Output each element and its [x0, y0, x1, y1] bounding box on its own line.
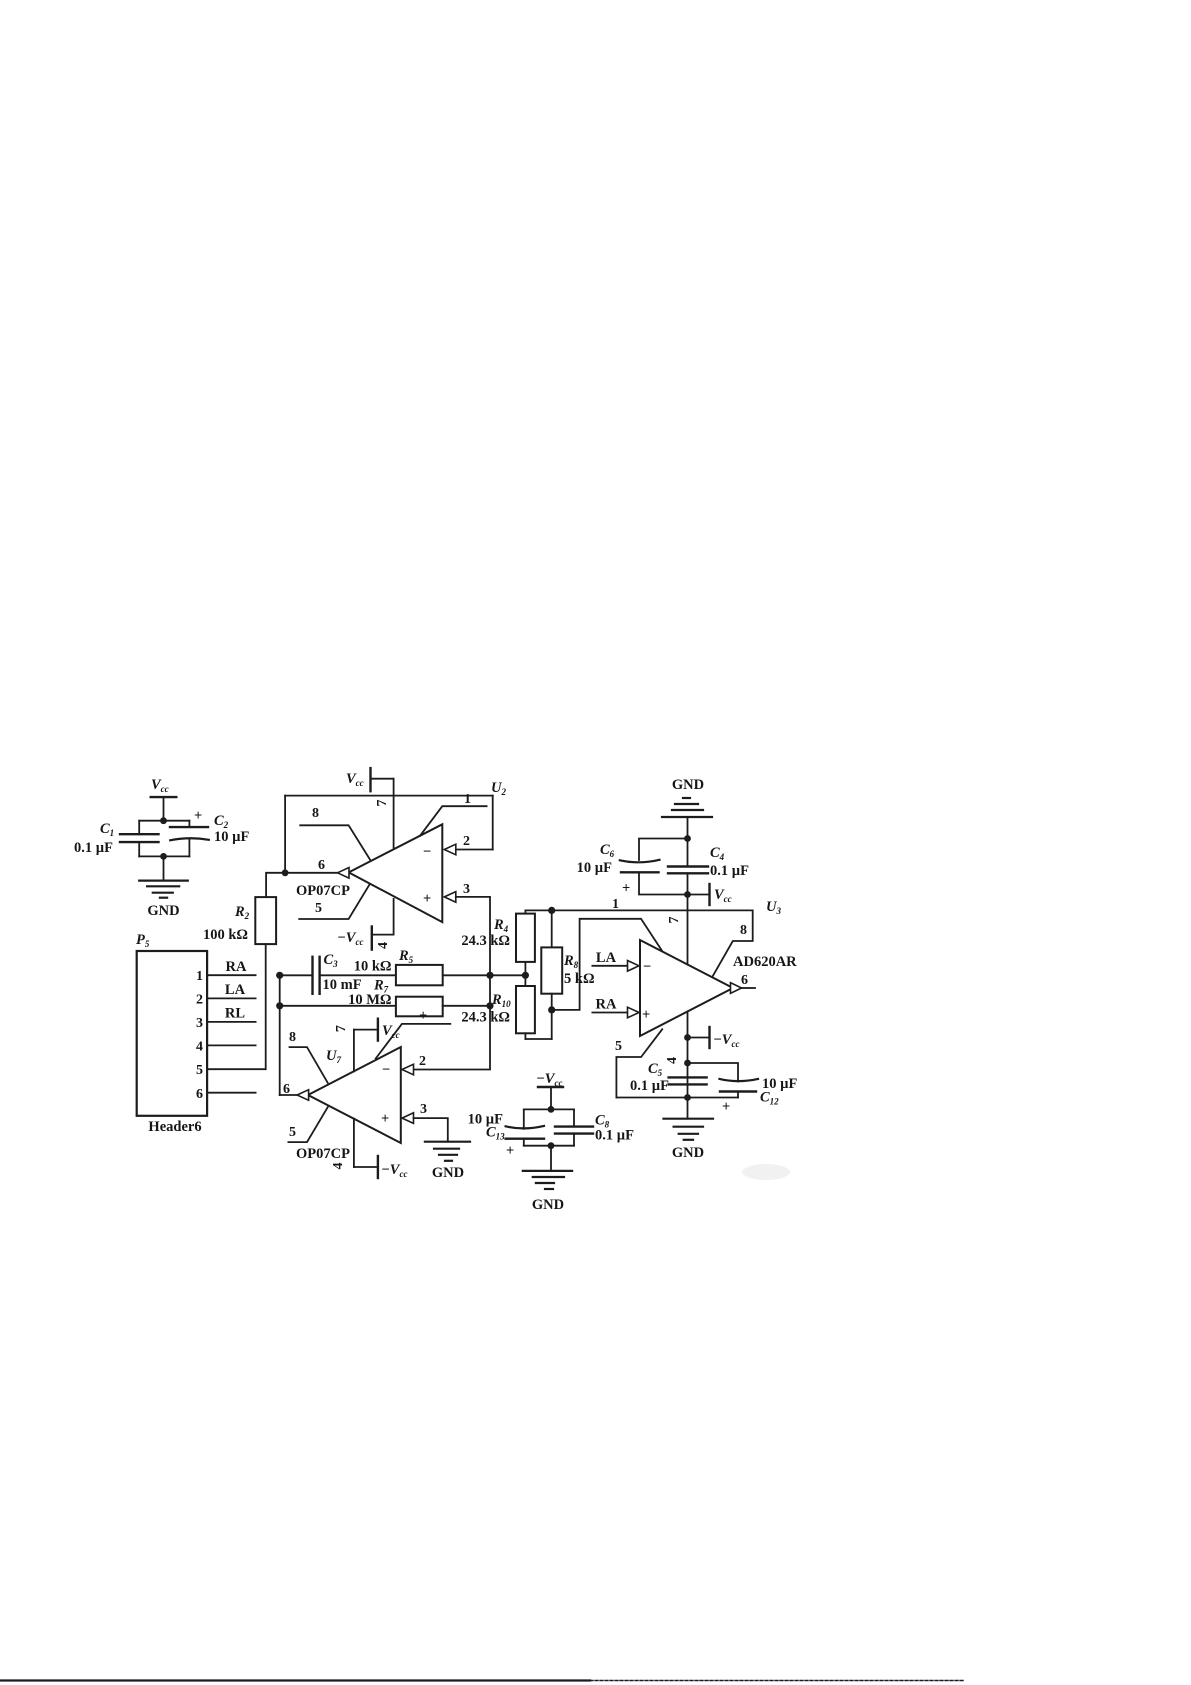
- power flag Vcc right of U3 supply: [688, 884, 732, 905]
- resistor R4 24.3k: [461, 910, 535, 975]
- wire gain network top rail to AD620 pin8: [525, 897, 752, 977]
- svg-text:10 mF: 10 mF: [323, 977, 362, 993]
- power flag -Vcc below U2: [337, 899, 394, 950]
- svg-text:24.3 kΩ: 24.3 kΩ: [461, 933, 510, 949]
- svg-text:0.1 µF: 0.1 µF: [630, 1078, 669, 1094]
- svg-text:100 kΩ: 100 kΩ: [203, 927, 248, 943]
- ground GND top-left: [139, 856, 188, 919]
- pin 6 output arrow of U3: [731, 973, 756, 993]
- ground GND above U3 (inverted): [662, 777, 712, 839]
- wire node to C3: [280, 974, 313, 976]
- pin 3 of P5 (RL): [196, 1006, 256, 1032]
- node junction at Vcc rail: [160, 817, 167, 824]
- pin 3 input arrow of U2: [444, 882, 470, 902]
- resistor R5 10k: [354, 948, 443, 985]
- wire top of C1/C2 pair: [139, 820, 189, 822]
- wire supply vertical from U3 pin4: [687, 1012, 689, 1098]
- wire U7 output to input column: [280, 1094, 297, 1096]
- pin 1 stub of U7 (open): [376, 1024, 451, 1059]
- svg-text:5: 5: [196, 1063, 203, 1078]
- svg-text:+: +: [423, 891, 431, 907]
- svg-text:10 µF: 10 µF: [577, 860, 612, 876]
- svg-text:4: 4: [331, 1163, 346, 1170]
- svg-text:8: 8: [740, 923, 747, 938]
- svg-text:4: 4: [376, 942, 391, 949]
- pin 2 input arrow of U2: [444, 834, 470, 855]
- svg-text:GND: GND: [432, 1165, 464, 1181]
- wire R5 to mid node: [443, 974, 526, 976]
- bottom page rule solid: [0, 1679, 590, 1681]
- wire bottom U of gain network: [525, 1038, 551, 1040]
- svg-text:7: 7: [334, 1025, 349, 1032]
- wire supply vertical into U3 pin7: [687, 895, 689, 965]
- wire U2 feedback top rail: [285, 796, 493, 873]
- svg-text:7: 7: [375, 800, 390, 807]
- node junction bottom cap pair: [548, 1106, 555, 1113]
- svg-text:8: 8: [312, 806, 319, 821]
- node junction top cap pair: [684, 835, 691, 842]
- resistor R2 100k: [203, 897, 276, 944]
- designator U7: [326, 1048, 341, 1065]
- ground GND bottom middle: [523, 1146, 572, 1213]
- pin 5 of P5: [196, 1063, 203, 1078]
- capacitor C6 10uF polarized: [577, 839, 688, 897]
- power flag -Vcc right of U3: [688, 1027, 740, 1049]
- node junction R7 tap: [276, 1002, 283, 1009]
- node junction -Vcc tap U3: [684, 1034, 691, 1041]
- node junction Vcc tap U3: [684, 891, 691, 898]
- svg-text:24.3 kΩ: 24.3 kΩ: [461, 1010, 510, 1026]
- node junction R4/R10: [522, 972, 529, 979]
- svg-text:+: +: [622, 881, 630, 897]
- capacitor C8 0.1uF: [555, 1109, 634, 1145]
- svg-text:Header6: Header6: [148, 1119, 201, 1135]
- wire pin7 supply into U2: [393, 779, 395, 848]
- node junction RA/C3: [276, 972, 283, 979]
- wire C3 to R5: [320, 974, 396, 976]
- pin 1 of P5 (RA): [196, 959, 256, 984]
- svg-text:3: 3: [420, 1102, 427, 1117]
- pin number 7 of U2 (rotated): [375, 800, 390, 807]
- pin 5 stub of U3 to reference rail: [615, 1029, 662, 1097]
- pin number 7 of U7 (rotated): [334, 1025, 349, 1032]
- svg-text:7: 7: [667, 917, 682, 924]
- svg-text:6: 6: [318, 858, 325, 873]
- capacitor C12 10uF polarized: [688, 1063, 798, 1115]
- svg-text:+: +: [642, 1007, 650, 1023]
- connector P5 Header6: [136, 932, 207, 1135]
- svg-text:LA: LA: [225, 982, 246, 998]
- wire top of C13/C8 pair: [524, 1108, 574, 1110]
- capacitor C4 0.1uF: [668, 839, 749, 895]
- wire R2 bottom to header pin5: [207, 944, 266, 1069]
- wire U7 pin3 to ground: [414, 1118, 448, 1142]
- svg-text:+: +: [722, 1099, 730, 1115]
- svg-text:10 kΩ: 10 kΩ: [354, 959, 392, 975]
- wire bottom of C1/C2 pair: [139, 855, 189, 857]
- svg-text:OP07CP: OP07CP: [296, 1146, 350, 1162]
- bottom page rule dashed: [590, 1680, 964, 1682]
- ground GND at U7 pin3: [425, 1142, 470, 1181]
- svg-text:6: 6: [196, 1087, 203, 1102]
- svg-text:GND: GND: [672, 777, 704, 793]
- power flag Vcc above U7: [354, 1019, 400, 1072]
- wire gain bottom to AD620 pin1: [552, 919, 662, 1010]
- pin 3 input arrow of U7: [402, 1102, 427, 1123]
- svg-text:OP07CP: OP07CP: [296, 883, 350, 899]
- svg-text:5: 5: [289, 1125, 296, 1140]
- ground GND below U3: [664, 1098, 714, 1162]
- node junction above bottom GND: [548, 1142, 555, 1149]
- net label RA into U3: [592, 997, 639, 1018]
- pin number 4 of U7 (rotated): [331, 1163, 346, 1170]
- resistor R8 5k gain: [541, 910, 594, 1039]
- wire bottom of C13/C8 pair: [524, 1145, 574, 1147]
- capacitor C5 0.1uF below U3: [630, 1061, 707, 1094]
- svg-text:4: 4: [196, 1040, 203, 1055]
- designator U3: [766, 899, 781, 916]
- svg-text:LA: LA: [596, 950, 617, 966]
- svg-text:GND: GND: [532, 1197, 564, 1213]
- svg-text:GND: GND: [147, 903, 179, 919]
- designator U2: [491, 780, 506, 797]
- svg-text:AD620AR: AD620AR: [733, 954, 797, 970]
- node junction ground rail: [684, 1094, 691, 1101]
- wire reference/ground rail below U3: [616, 1097, 738, 1099]
- svg-text:0.1 µF: 0.1 µF: [710, 863, 749, 879]
- op-amp U2 OP07CP triangle: [349, 824, 443, 922]
- svg-text:GND: GND: [672, 1145, 704, 1161]
- wire U2 pin2 from top rail: [455, 796, 492, 850]
- node junction bottom cap pair top: [684, 1060, 691, 1067]
- power flag Vcc above U2: [346, 768, 394, 791]
- svg-text:−: −: [423, 844, 431, 860]
- label OP07CP for U2: [296, 883, 350, 899]
- svg-text:2: 2: [419, 1054, 426, 1069]
- svg-text:6: 6: [741, 973, 748, 988]
- resistor R10 24.3k: [461, 975, 535, 1039]
- op-amp U3 AD620AR triangle: [640, 940, 733, 1036]
- svg-text:1: 1: [464, 792, 471, 807]
- resistor R7 10M: [348, 978, 443, 1025]
- pin number 4 of U2 (rotated): [376, 942, 391, 949]
- pin 5 stub of U2: [299, 884, 370, 919]
- svg-text:8: 8: [289, 1030, 296, 1045]
- power flag -Vcc above bottom cap pair: [536, 1071, 563, 1109]
- wire U2 output node to R2: [266, 873, 285, 897]
- pin number 7 of U3 (rotated): [667, 917, 682, 924]
- power flag -Vcc below U7: [354, 1119, 408, 1179]
- svg-text:1: 1: [196, 969, 203, 984]
- svg-text:+: +: [381, 1111, 389, 1127]
- node junction vertical/R7 wire: [486, 1002, 493, 1009]
- node junction above GND: [160, 853, 167, 860]
- pin 2 input arrow of U7: [402, 1054, 426, 1075]
- svg-text:+: +: [419, 1008, 427, 1024]
- svg-text:10 MΩ: 10 MΩ: [348, 992, 391, 1008]
- svg-text:0.1 µF: 0.1 µF: [74, 840, 113, 856]
- smudge artifact: [742, 1164, 790, 1180]
- power flag Vcc top-left: [151, 777, 177, 821]
- capacitor C1 0.1uF: [74, 821, 159, 857]
- node junction top rail / R2 gain: [548, 907, 555, 914]
- svg-text:2: 2: [196, 993, 203, 1008]
- svg-text:5: 5: [315, 901, 322, 916]
- pin 1 stub of U2: [420, 792, 487, 836]
- svg-text:RA: RA: [596, 997, 617, 1013]
- wire U2 output to node: [285, 872, 337, 874]
- op-amp U7 OP07CP triangle: [308, 1047, 401, 1143]
- pin 5 stub of U7: [288, 1107, 327, 1142]
- wire U2 pin3 to U7 pin2 vertical: [414, 897, 490, 1070]
- svg-text:−: −: [643, 959, 651, 975]
- wire R7 to vertical: [443, 1005, 490, 1007]
- capacitor C2 10uF polarized: [170, 808, 249, 856]
- node junction U2 output: [282, 869, 289, 876]
- capacitor C13 10uF polarized: [468, 1109, 544, 1159]
- svg-text:3: 3: [196, 1016, 203, 1031]
- pin 8 label of U3: [740, 923, 747, 938]
- svg-text:2: 2: [463, 834, 470, 849]
- svg-text:3: 3: [463, 882, 470, 897]
- pin 2 of P5 (LA): [196, 982, 256, 1008]
- svg-text:+: +: [194, 808, 202, 824]
- svg-text:1: 1: [612, 897, 619, 912]
- wire node to R7: [280, 1005, 396, 1007]
- pin 6 of P5: [196, 1087, 256, 1102]
- svg-text:5: 5: [615, 1039, 622, 1054]
- node junction vertical/R5 wire: [486, 972, 493, 979]
- svg-text:RA: RA: [226, 959, 247, 975]
- node junction R2 gain bottom: [548, 1006, 555, 1013]
- pin 8 stub of U2: [300, 806, 371, 861]
- svg-text:4: 4: [665, 1057, 680, 1064]
- svg-text:+: +: [506, 1143, 514, 1159]
- svg-text:RL: RL: [225, 1006, 245, 1022]
- pin number 4 of U3 (rotated): [665, 1057, 680, 1064]
- svg-text:10 µF: 10 µF: [214, 829, 249, 845]
- pin 8 stub of U7: [289, 1030, 328, 1083]
- svg-text:−: −: [382, 1062, 390, 1078]
- svg-text:0.1 µF: 0.1 µF: [595, 1128, 634, 1144]
- pin 6 output arrow of U2: [318, 858, 349, 878]
- pin 4 of P5: [196, 1040, 256, 1055]
- label OP07CP for U7: [296, 1146, 350, 1162]
- net label LA into U3: [592, 950, 639, 971]
- wire input net vertical column: [279, 975, 281, 1095]
- capacitor C3 10mF: [313, 952, 362, 994]
- pin 6 output arrow of U7: [283, 1082, 309, 1100]
- label AD620AR: [733, 954, 797, 970]
